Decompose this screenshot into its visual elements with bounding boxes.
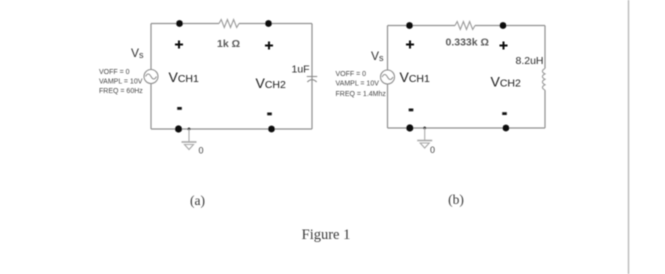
node dot bottom-left (b) <box>406 124 413 131</box>
wire top-left segment (a) <box>151 23 219 25</box>
svg-text:8.2uH: 8.2uH <box>516 55 544 67</box>
plus mark VCH2 <box>265 42 273 50</box>
plus mark VCH1 <box>175 41 183 49</box>
ground symbol (b) <box>417 128 432 148</box>
node dot top-left (a) <box>176 20 183 27</box>
wire left edge upper (b) <box>387 26 389 71</box>
svg-text:VCH1: VCH1 <box>169 69 200 85</box>
svg-text:VAMPL = 10V: VAMPL = 10V <box>336 81 380 88</box>
inductor L1 8.2uH <box>542 69 545 91</box>
svg-text:VCH2: VCH2 <box>256 75 287 91</box>
svg-text:VOFF = 0: VOFF = 0 <box>336 71 367 78</box>
resistor R2 0.333k <box>455 22 475 30</box>
svg-text:(b): (b) <box>448 192 464 207</box>
minus mark VCH2 <box>267 113 272 116</box>
svg-text:0.333k Ω: 0.333k Ω <box>446 37 489 49</box>
V1 parameter labels VOFF/VAMPL/FREQ (a) <box>99 69 143 95</box>
wire top-left segment (b) <box>388 25 456 27</box>
voltage source V2 (b) <box>381 70 395 84</box>
svg-text:0: 0 <box>430 145 435 155</box>
svg-text:1k Ω: 1k Ω <box>217 38 240 50</box>
node dot bottom-right (a) <box>268 126 275 133</box>
node dot top-right (b) <box>500 22 507 29</box>
plus mark VCH1 (b) <box>406 41 414 49</box>
svg-text:FREQ = 1.4Mhz: FREQ = 1.4Mhz <box>336 91 387 98</box>
node dot top-right (a) <box>265 20 272 27</box>
svg-text:Figure 1: Figure 1 <box>302 227 351 243</box>
node dot bottom-left (a) <box>175 125 182 132</box>
resistor R1 1k <box>219 20 239 28</box>
minus mark VCH2 (b) <box>502 112 507 115</box>
capacitor C1 symbol <box>307 77 317 83</box>
svg-text:(a): (a) <box>190 193 205 208</box>
wire left edge lower (a) <box>150 84 152 130</box>
wire right edge (a) <box>311 24 313 130</box>
svg-text:VCH1: VCH1 <box>400 69 431 85</box>
page divider vertical line <box>628 0 630 274</box>
svg-text:0: 0 <box>199 146 204 156</box>
wire bottom segment (b) <box>388 127 546 129</box>
svg-text:VAMPL = 10V: VAMPL = 10V <box>99 79 143 86</box>
voltage source V1 (a) <box>144 70 158 84</box>
wire left edge upper (a) <box>150 24 152 70</box>
V2 parameter labels VOFF/VAMPL/FREQ (b) <box>336 71 387 98</box>
wire right edge upper (b) <box>544 26 546 69</box>
svg-text:Vs: Vs <box>131 46 144 60</box>
wire left edge lower (b) <box>387 84 389 128</box>
svg-text:1uF: 1uF <box>292 64 310 76</box>
wire bottom segment (a) <box>151 128 312 130</box>
ground junction small dot (a) <box>188 128 191 131</box>
svg-text:FREQ = 60Hz: FREQ = 60Hz <box>99 88 143 95</box>
svg-text:VOFF = 0: VOFF = 0 <box>99 69 130 76</box>
node dot bottom-right (b) <box>503 125 510 132</box>
node dot top-left (b) <box>406 22 413 29</box>
svg-text:VCH2: VCH2 <box>491 74 522 90</box>
ground junction small dot (b) <box>423 127 426 130</box>
wire top-right segment (b) <box>475 25 545 27</box>
plus mark VCH2 (b) <box>500 42 508 50</box>
wire top-right segment (a) <box>239 23 312 25</box>
wire right edge lower (b) <box>544 90 546 128</box>
minus mark VCH1 <box>177 107 182 110</box>
ground symbol (a) <box>182 129 197 150</box>
minus mark VCH1 (b) <box>409 109 414 112</box>
svg-text:Vs: Vs <box>371 49 384 63</box>
